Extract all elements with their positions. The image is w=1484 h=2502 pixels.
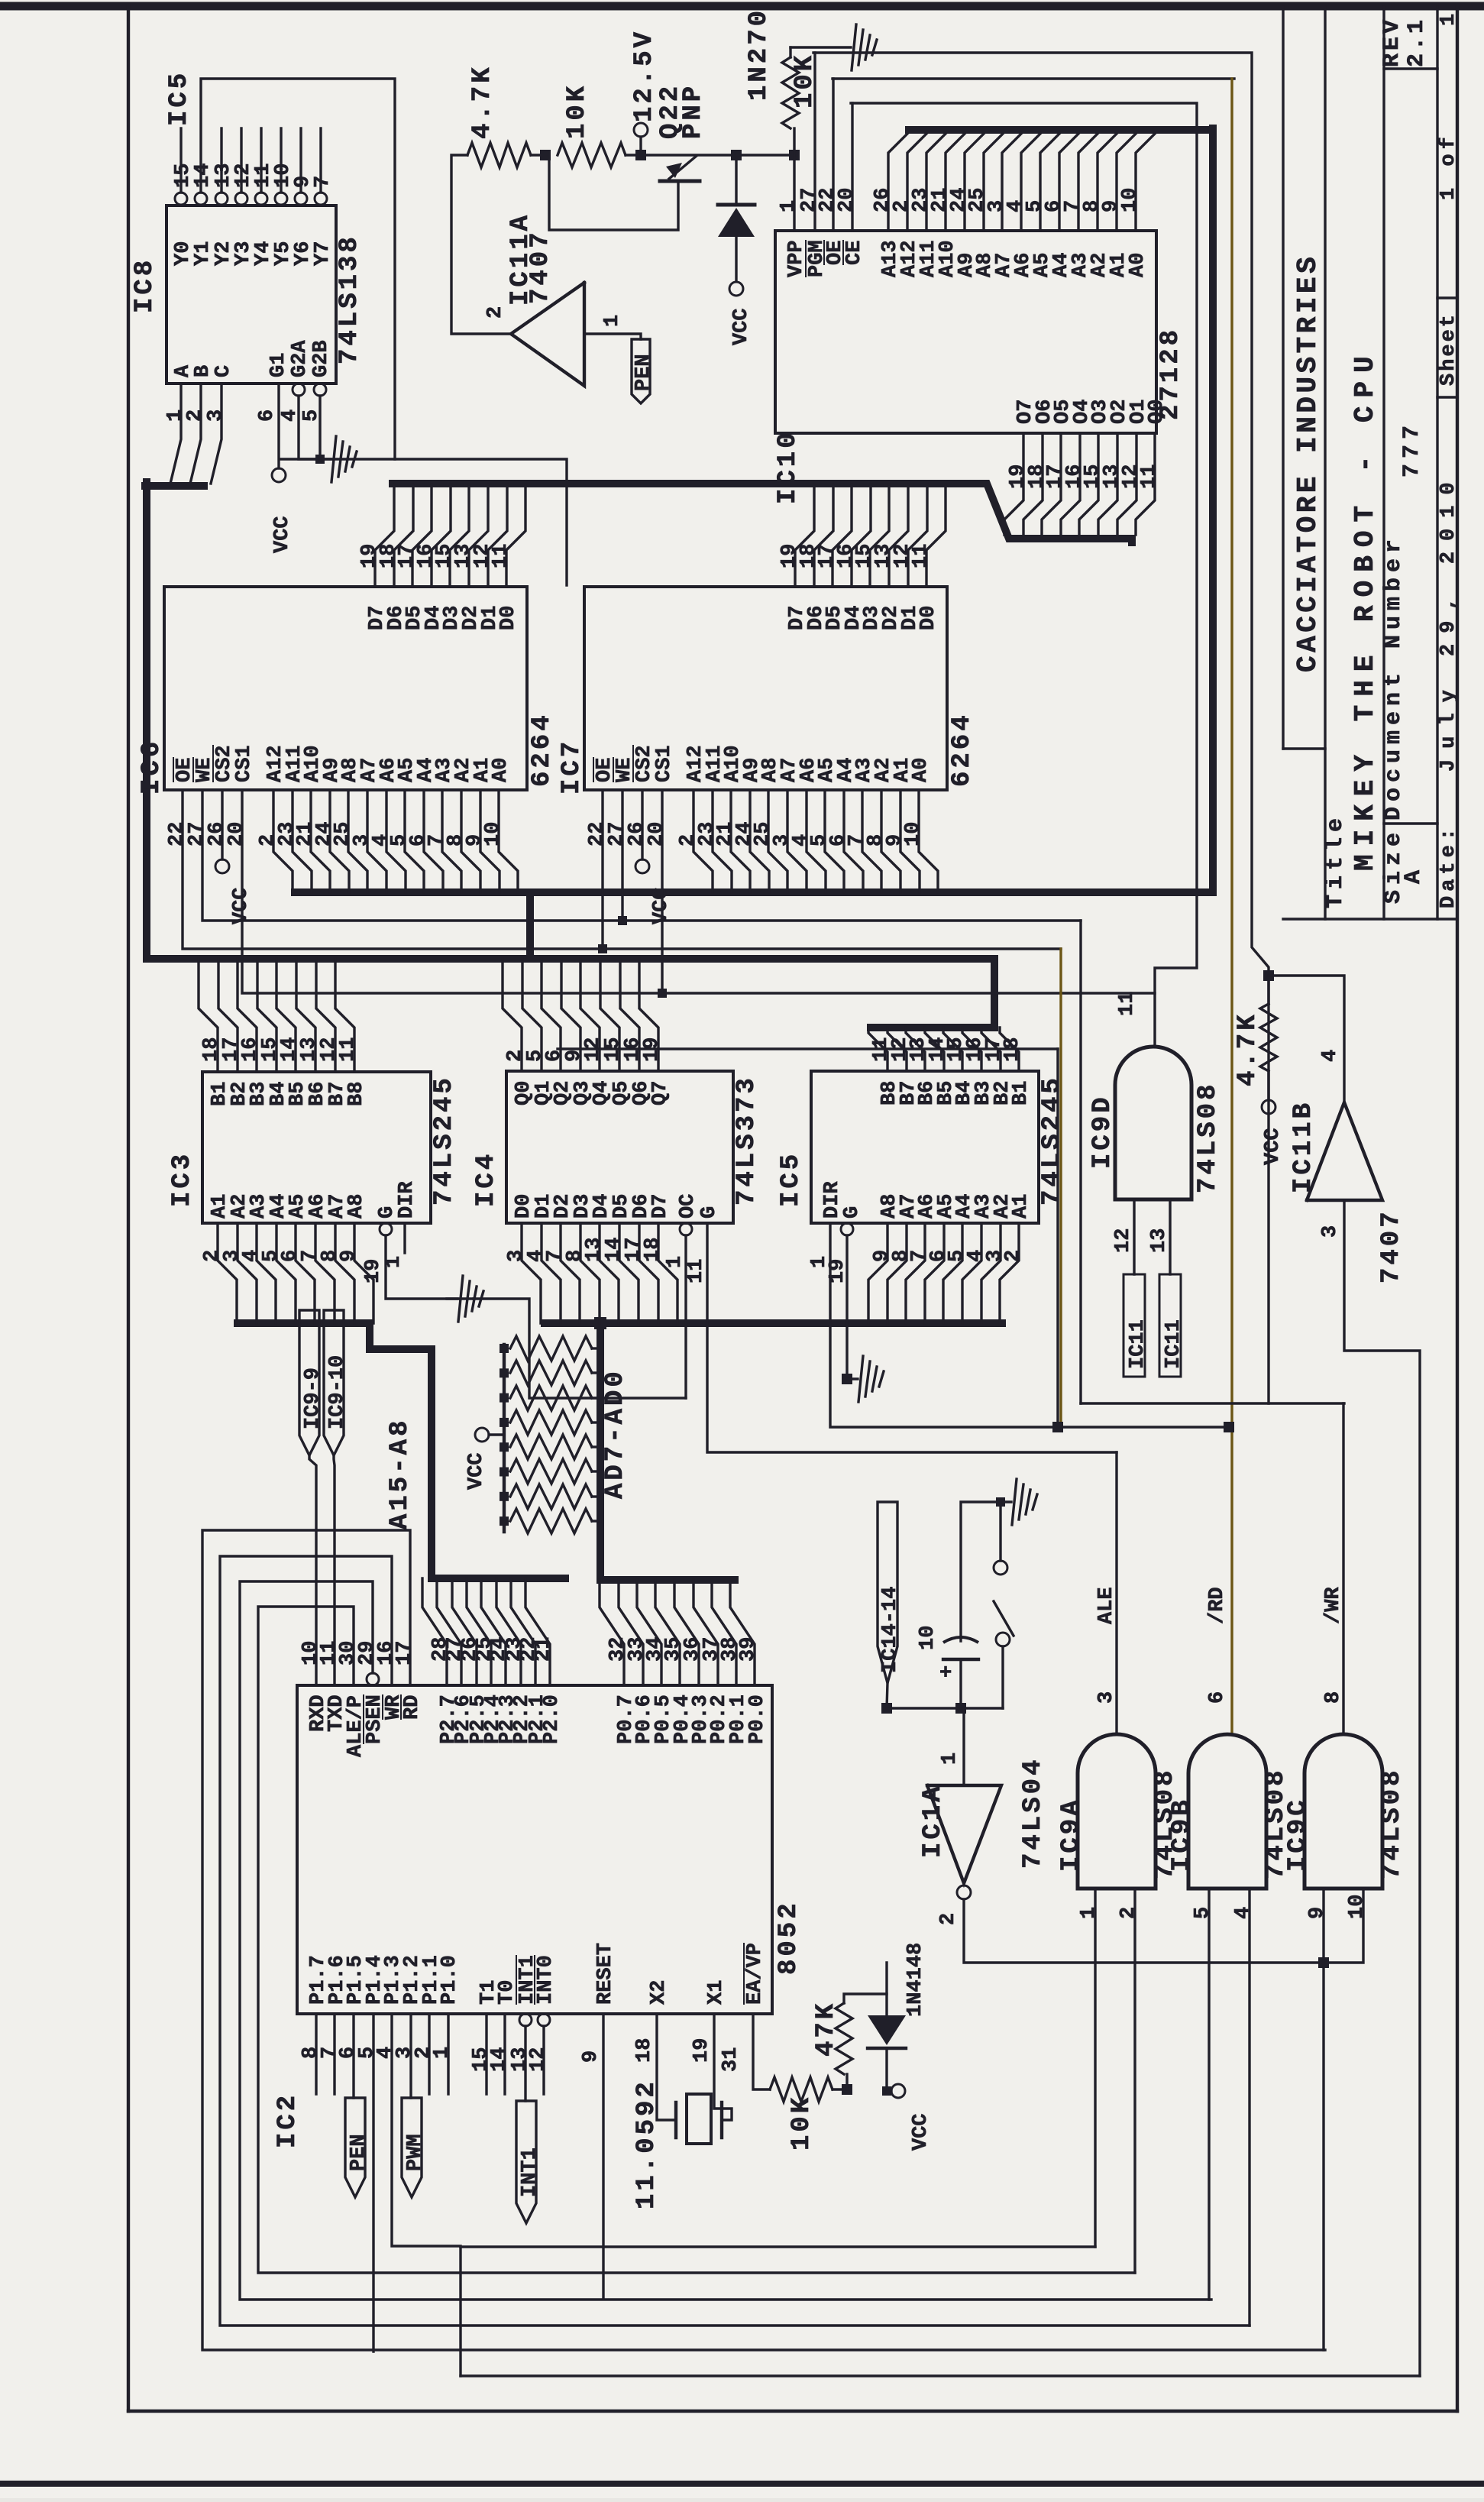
svg-text:6: 6 (256, 409, 279, 422)
svg-text:VPP: VPP (785, 240, 808, 277)
svg-text:777: 777 (1399, 420, 1425, 477)
svg-text:47K: 47K (812, 2001, 841, 2057)
svg-text:MIKEY THE ROBOT - CPU: MIKEY THE ROBOT - CPU (1350, 348, 1381, 871)
IC10 pins VPP PGM OE CE wires (793, 155, 795, 231)
svg-text:12: 12 (527, 2047, 550, 2072)
svg-text:7407: 7407 (1377, 1209, 1406, 1283)
wire rail RD loop (202, 1530, 1324, 2350)
bus thick data D0-D7 (145, 482, 204, 490)
svg-text:4: 4 (1319, 1050, 1342, 1062)
svg-text:IC9A: IC9A (1057, 1797, 1086, 1872)
svg-text:Size: Size (1381, 827, 1407, 904)
resistor 10K (558, 143, 626, 167)
svg-text:B8: B8 (345, 1082, 368, 1106)
resistor pack AD bus pull-ups (503, 1345, 506, 1532)
svg-text:DIR: DIR (396, 1181, 419, 1219)
VCC below 1N270 (729, 282, 743, 296)
wire RESET down (602, 2014, 604, 2299)
resistor 10K pullup to gnd rail (793, 128, 795, 155)
flag IC9-9 (299, 1310, 319, 1455)
svg-text:Y7: Y7 (312, 241, 335, 266)
svg-text:1: 1 (664, 1256, 687, 1268)
svg-text:G2B: G2B (310, 340, 333, 377)
svg-text:T0: T0 (496, 1980, 519, 2005)
svg-text:IC4: IC4 (472, 1151, 501, 1207)
gate IC9B 74LS08 (1188, 1734, 1266, 1889)
svg-text:74LS245: 74LS245 (430, 1075, 459, 1206)
svg-text:21: 21 (532, 1637, 555, 1662)
svg-text:PWM: PWM (404, 2134, 427, 2171)
bus thick A15-A8 (238, 1323, 432, 1578)
svg-text:19: 19 (690, 2038, 713, 2063)
svg-text:14: 14 (192, 163, 215, 188)
VCC for pack (489, 1433, 504, 1435)
svg-text:A1: A1 (1010, 1194, 1033, 1219)
svg-text:VCC: VCC (271, 516, 294, 553)
IC6 control wires (183, 790, 1061, 949)
flag PEN (top) (632, 339, 650, 403)
svg-text:13: 13 (1148, 1228, 1171, 1253)
pull-up resistor 3 (500, 1393, 509, 1403)
svg-text:AD7-AD0: AD7-AD0 (601, 1368, 630, 1499)
svg-text:G: G (698, 1206, 721, 1219)
svg-text:VCC: VCC (1262, 1128, 1285, 1165)
svg-text:IC9-10: IC9-10 (326, 1355, 349, 1429)
svg-text:IC3: IC3 (168, 1151, 197, 1207)
svg-text:74LS04: 74LS04 (1019, 1757, 1048, 1869)
inverter IC1A 74LS04 (927, 1785, 1001, 1883)
gate input wires to bottom rails (1094, 1889, 1096, 2247)
pull-up resistor 7 (500, 1492, 509, 1501)
svg-text:O0: O0 (1146, 400, 1169, 424)
wire Y1 loop to VCC (201, 79, 395, 459)
svg-text:D0: D0 (497, 606, 520, 630)
svg-text:ALE: ALE (1095, 1587, 1118, 1624)
wire IC9D out to top rail (1152, 1045, 1154, 1047)
svg-text:1: 1 (1437, 14, 1460, 26)
svg-text:2: 2 (1117, 1907, 1140, 1919)
svg-text:10: 10 (1346, 1895, 1369, 1919)
IC8 pin 15 Y0 (175, 193, 187, 205)
svg-text:9: 9 (580, 2050, 603, 2063)
svg-text:PEN: PEN (348, 2134, 370, 2171)
op-amp/buffer IC11A 7407 triangle (511, 283, 584, 386)
svg-text:+: + (936, 1665, 959, 1678)
svg-text:P2.0: P2.0 (541, 1694, 564, 1744)
svg-text:9: 9 (1306, 1907, 1329, 1919)
svg-text:A15-A8: A15-A8 (386, 1418, 415, 1529)
svg-text:OC: OC (677, 1194, 700, 1219)
svg-text:18: 18 (642, 1238, 664, 1262)
svg-text:5: 5 (1191, 1907, 1214, 1919)
svg-text:Y1: Y1 (192, 241, 215, 266)
svg-text:2: 2 (484, 306, 507, 319)
svg-text:17: 17 (393, 1641, 416, 1665)
12.5V supply (634, 123, 648, 137)
svg-text:1: 1 (939, 1753, 962, 1765)
svg-text:6264: 6264 (948, 712, 977, 787)
svg-text:74LS245: 74LS245 (1038, 1075, 1067, 1206)
IC7 6264 RAM (584, 587, 947, 790)
svg-text:4.7K: 4.7K (1233, 1011, 1263, 1086)
svg-text:Date:: Date: (1437, 824, 1460, 908)
IC8 pin 7 Y7 (315, 193, 327, 205)
svg-text:IC9B: IC9B (1168, 1797, 1197, 1872)
wire bottom W0 (461, 2245, 1095, 2248)
svg-text:CACCIATORE INDUSTRIES: CACCIATORE INDUSTRIES (1292, 254, 1324, 672)
svg-text:11: 11 (685, 1259, 708, 1283)
buffer IC11B 7407 (1307, 1102, 1382, 1200)
svg-text:PNP: PNP (679, 83, 708, 139)
pull-up resistor 4 (500, 1418, 509, 1427)
wire bottom E (461, 2374, 1420, 2377)
svg-text:14: 14 (488, 2047, 511, 2072)
svg-text:IC8: IC8 (131, 257, 160, 313)
svg-text:IC2: IC2 (273, 2093, 302, 2148)
wire misc rail (558, 1047, 1058, 1050)
svg-text:VCC: VCC (730, 308, 753, 345)
IC9A output wire (ALE) (1115, 1452, 1117, 1734)
svg-text:1: 1 (601, 315, 624, 327)
svg-text:EA/VP: EA/VP (744, 1943, 767, 2005)
svg-text:Document Number: Document Number (1381, 534, 1407, 821)
IC9C pins 9-10 tie (1324, 1889, 1363, 1963)
IC11A pin 1 wire to PEN flag (584, 334, 641, 339)
IC9C output wire /WR (1342, 1403, 1344, 1734)
crystal circuit (657, 2014, 676, 2120)
svg-text:INT0: INT0 (535, 1955, 558, 2005)
svg-text:IC1A: IC1A (919, 1783, 948, 1858)
ground (847, 1377, 858, 1380)
pull-up resistor 1 (500, 1344, 509, 1353)
svg-text:1: 1 (778, 200, 800, 212)
IC7 control wires (601, 790, 603, 949)
svg-text:July 29, 2010: July 29, 2010 (1437, 471, 1460, 772)
svg-text:D7: D7 (649, 1194, 672, 1219)
svg-text:12.5V: 12.5V (630, 29, 659, 122)
svg-text:2: 2 (1002, 1250, 1025, 1262)
svg-text:8: 8 (1322, 1691, 1345, 1704)
svg-text:/WR: /WR (1322, 1587, 1345, 1624)
gate IC9A 74LS08 (1078, 1734, 1156, 1889)
svg-text:IC7: IC7 (558, 739, 587, 795)
VCC supply (635, 859, 649, 873)
title block (1282, 7, 1284, 749)
pull-up resistor 6 (500, 1468, 509, 1477)
svg-text:RESET: RESET (594, 1943, 617, 2005)
wire rail WE net (outer loop) (813, 53, 1269, 1403)
svg-text:RD: RD (401, 1695, 424, 1720)
bus thick address (vertical right) (1128, 539, 1136, 542)
svg-text:9: 9 (338, 1250, 360, 1262)
svg-text:IC9C: IC9C (1284, 1797, 1313, 1872)
wire cap node to IC1A (961, 1707, 964, 1709)
IC8 pin 11 Y4 (255, 193, 267, 205)
IC10 27128 EPROM (775, 231, 1156, 433)
svg-text:10: 10 (917, 1626, 939, 1650)
wire /WR horizontal (1081, 1402, 1344, 1404)
svg-text:1: 1 (431, 2047, 454, 2059)
ground (447, 1297, 457, 1300)
gate IC9D 74LS08 (1115, 1047, 1191, 1199)
svg-text:11: 11 (337, 1037, 360, 1062)
flag box IC11 (b) (1159, 1274, 1181, 1377)
svg-text:Title: Title (1323, 813, 1349, 908)
VCC supply (215, 859, 229, 873)
svg-text:19: 19 (641, 1037, 664, 1062)
IC8 pin 14 Y1 (195, 193, 207, 205)
resistor 10K reset (770, 2077, 833, 2102)
wire rail WR loop (220, 1556, 1250, 2326)
flag IC9-10 (324, 1310, 344, 1455)
svg-text:1N4148: 1N4148 (904, 1943, 927, 2017)
svg-text:1 of: 1 of (1437, 132, 1460, 200)
wire rail CS net (inner) (851, 103, 1197, 1047)
flag PWM (409, 2014, 412, 2098)
junction dots RAM control rails (598, 944, 607, 953)
switch (996, 1497, 1005, 1507)
pull-up resistor 5 (500, 1442, 509, 1452)
flag IC14-14 (878, 1502, 897, 1683)
svg-text:19: 19 (362, 1259, 385, 1283)
wire rail continues to VPP (736, 154, 794, 156)
svg-text:6: 6 (1206, 1691, 1229, 1704)
svg-text:6264: 6264 (528, 712, 557, 787)
svg-text:10: 10 (902, 822, 925, 846)
bus thick AD7-AD0 (545, 1319, 1002, 1327)
svg-text:B1: B1 (1010, 1081, 1033, 1105)
svg-text:CS1: CS1 (653, 745, 676, 782)
flag box IC11 (a) (1124, 1274, 1145, 1377)
svg-text:VCC: VCC (465, 1452, 488, 1490)
svg-text:4.7K: 4.7K (468, 64, 497, 139)
svg-text:A: A (1401, 870, 1427, 884)
svg-text:CS1: CS1 (233, 745, 256, 782)
wire P1.4 down (372, 2014, 374, 2351)
IC3 G wire to ground (386, 1235, 474, 1299)
wire WE drop to /WR (1079, 921, 1081, 1403)
svg-text:2.1: 2.1 (1404, 17, 1430, 67)
IC6 6264 RAM (164, 587, 527, 790)
svg-text:Q7: Q7 (649, 1081, 672, 1105)
svg-text:X1: X1 (705, 1980, 728, 2005)
svg-text:B: B (192, 365, 215, 377)
svg-text:Sheet: Sheet (1437, 312, 1460, 386)
svg-text:IC5: IC5 (165, 70, 194, 126)
svg-text:74LS08: 74LS08 (1378, 1768, 1407, 1879)
svg-text:VCC: VCC (910, 2113, 933, 2151)
svg-text:P1.0: P1.0 (438, 1955, 461, 2005)
svg-text:7: 7 (312, 176, 335, 188)
svg-text:3: 3 (1319, 1225, 1342, 1238)
flag PEN (bottom) (352, 2014, 354, 2098)
svg-text:20: 20 (836, 188, 858, 212)
svg-text:A0: A0 (490, 758, 512, 782)
IC2 pin stubs bottom (315, 2014, 317, 2094)
ground (320, 458, 331, 460)
svg-text:2: 2 (937, 1913, 960, 1925)
IC2 pin 29 PSEN bubble (367, 1673, 379, 1685)
pull-up resistor 8 (500, 1516, 509, 1526)
svg-text:PEN: PEN (632, 354, 655, 391)
IC2 8052 CPU (297, 1685, 772, 2014)
svg-text:D0: D0 (917, 606, 940, 630)
svg-text:G: G (841, 1206, 864, 1219)
wire rail ALE loop (258, 1607, 1135, 2273)
svg-text:10K: 10K (787, 2095, 816, 2151)
svg-text:74LS138: 74LS138 (335, 234, 364, 364)
svg-text:11: 11 (1116, 992, 1139, 1016)
svg-text:IC11B: IC11B (1289, 1100, 1318, 1193)
svg-text:C: C (212, 365, 235, 377)
wire pullup node to IC11B pin4 (1269, 976, 1344, 1102)
svg-text:74LS373: 74LS373 (732, 1075, 761, 1206)
IC2 pin 13 12 bubbles (519, 2014, 532, 2026)
svg-text:10K: 10K (563, 83, 592, 139)
pull-up resistor 2 (500, 1368, 509, 1377)
svg-text:INT1: INT1 (519, 2148, 542, 2197)
svg-text:IC10: IC10 (774, 429, 803, 504)
svg-text:3: 3 (1095, 1691, 1118, 1704)
svg-text:IC11: IC11 (1127, 1319, 1149, 1369)
svg-text:G1: G1 (267, 353, 290, 377)
svg-text:11.0592: 11.0592 (632, 2079, 661, 2209)
svg-text:IC11: IC11 (1162, 1319, 1185, 1369)
svg-text:A0: A0 (1127, 253, 1149, 277)
svg-text:/RD: /RD (1206, 1587, 1229, 1624)
IC8 pin 9 Y6 (295, 193, 307, 205)
svg-text:10: 10 (1119, 188, 1142, 212)
svg-text:CE: CE (843, 241, 866, 265)
svg-text:18: 18 (633, 2038, 656, 2063)
wire rail OE net (brown) (833, 77, 1234, 79)
svg-text:7407: 7407 (526, 229, 555, 304)
svg-text:3: 3 (205, 409, 228, 422)
ground (1001, 1500, 1011, 1503)
svg-text:39: 39 (737, 1637, 760, 1662)
wire OE drop to /RD (brown) (1059, 949, 1062, 1427)
svg-text:IC6: IC6 (137, 739, 167, 795)
svg-text:10: 10 (482, 822, 505, 846)
IC8 pin 10 Y5 (275, 193, 287, 205)
svg-text:IC5: IC5 (777, 1151, 806, 1207)
IC8 pin 12 Y3 (235, 193, 247, 205)
wire IC11A out loop (451, 155, 511, 334)
IC3 74LS245 buffer (202, 1072, 431, 1223)
svg-text:12: 12 (1112, 1228, 1135, 1253)
IC4 74LS373 latch (506, 1071, 733, 1223)
svg-text:A0: A0 (910, 758, 933, 782)
svg-text:IC14-14: IC14-14 (879, 1587, 902, 1673)
IC5 74LS245 buffer (811, 1071, 1039, 1223)
svg-text:G2A: G2A (289, 340, 312, 377)
wire rail PSEN loop (240, 1581, 1209, 2300)
flag INT1 (524, 2026, 526, 2101)
svg-text:20: 20 (225, 822, 248, 846)
svg-text:1: 1 (1078, 1907, 1101, 1919)
IC8 74LS138 decoder (167, 206, 336, 384)
svg-text:8052: 8052 (774, 1900, 803, 1975)
wire P1.3 route (392, 2014, 461, 2376)
svg-text:2: 2 (184, 409, 207, 422)
svg-text:IC9D: IC9D (1088, 1094, 1117, 1169)
svg-text:74LS08: 74LS08 (1194, 1082, 1223, 1193)
svg-text:P0.0: P0.0 (746, 1694, 769, 1744)
page border frame (0, 2, 1484, 11)
svg-text:REV: REV (1379, 17, 1405, 67)
svg-text:4: 4 (1232, 1907, 1255, 1919)
wire EA to 10K (753, 2014, 770, 2089)
svg-text:20: 20 (645, 822, 668, 846)
resistor 4.7K (467, 143, 531, 167)
svg-text:1N270: 1N270 (745, 8, 774, 101)
wires flags to CPU RXD TXD (309, 1455, 316, 1685)
svg-text:18: 18 (1001, 1037, 1024, 1062)
ground top (790, 46, 851, 48)
svg-text:X2: X2 (648, 1980, 671, 2005)
gate IC9C 74LS08 (1305, 1734, 1382, 1889)
svg-text:11: 11 (1138, 464, 1161, 489)
svg-text:31: 31 (719, 2047, 742, 2072)
svg-text:IC9-9: IC9-9 (302, 1368, 325, 1429)
IC8 pin 13 Y2 (215, 193, 228, 205)
VCC reset (887, 2089, 891, 2092)
resistor 47K (845, 2074, 848, 2089)
svg-text:A8: A8 (345, 1194, 368, 1219)
